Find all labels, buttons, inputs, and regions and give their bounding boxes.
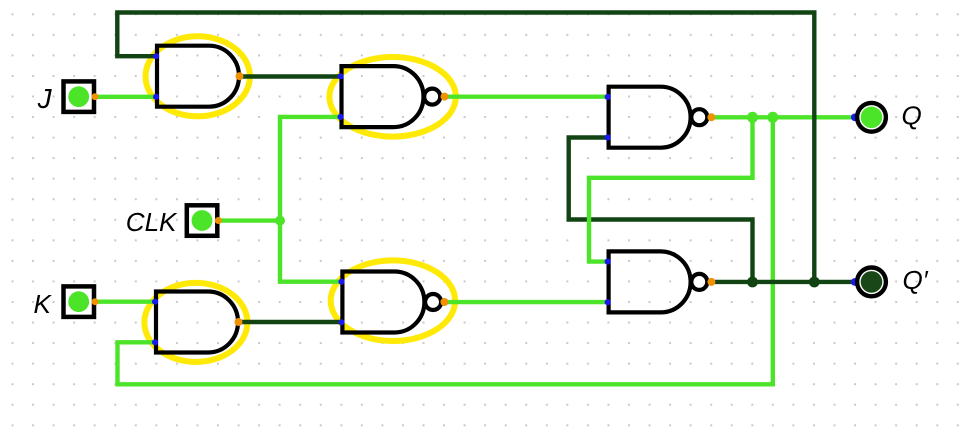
AND gate G1 [153, 46, 244, 107]
svg-text:K: K [34, 289, 53, 319]
label Q' [903, 265, 929, 295]
highlight ellipse around gate G2 [329, 57, 455, 137]
NAND gate G4 [338, 272, 448, 333]
NAND gate G5 [605, 87, 716, 148]
wire G6 output to Q' port (low) [711, 280, 853, 284]
wire J input to G1 lower input (high) [95, 95, 158, 99]
svg-text:J: J [37, 83, 53, 114]
input port CLK [187, 205, 222, 236]
wire Q feedback to G3 lower input (high) [118, 117, 773, 384]
junction CLK node [275, 216, 285, 226]
label CLK [126, 207, 178, 237]
highlight ellipse around gate G3 [144, 283, 247, 362]
wire CLK junction down to G4 upper input (high) [280, 219, 342, 282]
wire Q feedback to G6 upper input (high) [589, 117, 753, 261]
wire K input to G3 upper input (high) [95, 300, 156, 304]
wire G5 output to Q port (high) [711, 115, 853, 119]
junction Q' node A [747, 277, 758, 288]
label J [37, 83, 53, 114]
wire G3 output to G4 lower input (low) [236, 320, 342, 324]
junction Q' node B [809, 277, 820, 288]
label K [34, 289, 53, 319]
wire Q' feedback to G1 upper input (low) [117, 13, 814, 283]
svg-text:Q′: Q′ [903, 265, 929, 295]
wire CLK output to junction (high) [219, 218, 281, 222]
wire G2 output to G5 upper input (high) [443, 94, 608, 98]
wire G1 output to G2 upper input (low) [238, 74, 342, 78]
label Q [902, 101, 922, 131]
junction Q node B [767, 112, 778, 123]
output port Q [851, 103, 886, 132]
output port Q' [851, 268, 886, 297]
svg-text:CLK: CLK [126, 207, 178, 237]
wire CLK junction up to G2 lower input (high) [280, 117, 342, 223]
input port J [64, 81, 99, 112]
svg-text:Q: Q [902, 101, 922, 131]
NAND gate G2 [338, 66, 449, 127]
highlight ellipse around gate G4 [331, 260, 455, 341]
AND gate G3 [152, 292, 243, 353]
NAND gate G6 [605, 251, 716, 312]
wire G4 output to G6 lower input (high) [444, 300, 608, 304]
wire Q' feedback to G5 lower input (low) [569, 138, 753, 283]
highlight ellipse around gate G1 [146, 36, 250, 116]
input port K [64, 286, 99, 317]
junction Q node A [747, 112, 758, 123]
